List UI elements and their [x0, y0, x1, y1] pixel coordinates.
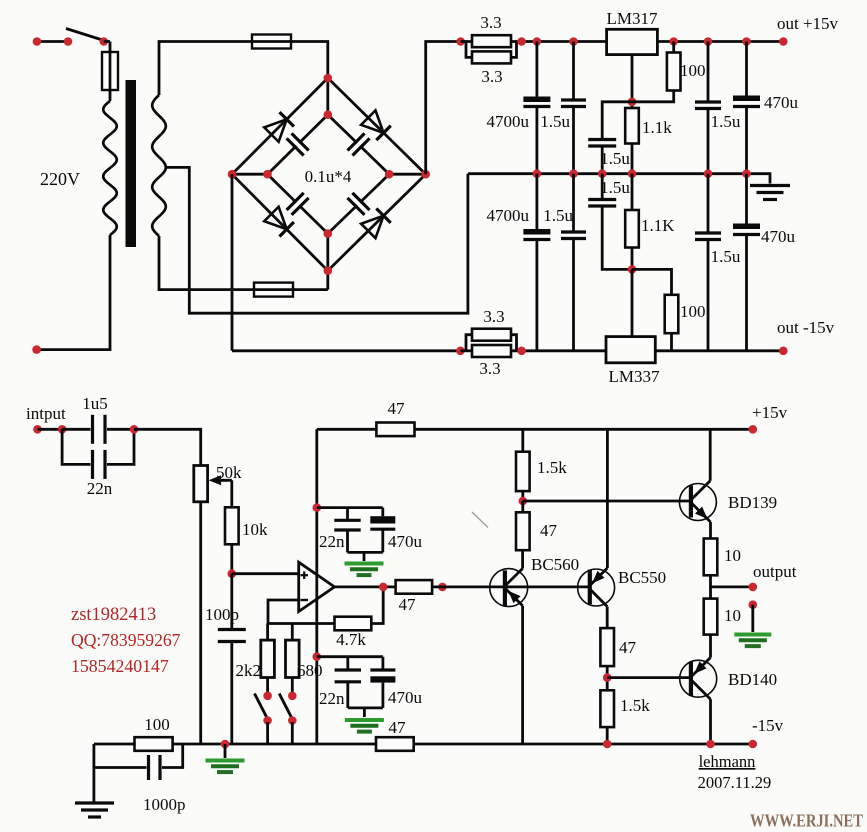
node 680 switch top — [288, 692, 297, 701]
node switch contact — [64, 37, 73, 46]
wire to op-amp +input — [232, 572, 299, 575]
resistor R4 100 (+) — [632, 42, 681, 102]
capacitor C17 470u (bottom decoupling) — [370, 657, 395, 708]
svg-text:10: 10 — [724, 546, 741, 565]
wire decoupling bottom branch — [317, 655, 383, 658]
capacitor bridge snubber bottom-left 0.1u — [287, 193, 309, 215]
wire bottom rail right to -15v — [414, 740, 757, 749]
wire 3.3 pair to LM317 input — [511, 37, 607, 46]
label 1.5u (+out) — [711, 112, 741, 131]
svg-text:470u: 470u — [388, 688, 423, 707]
node 1.5k/47 junction — [519, 497, 528, 506]
wire decoupling bottom join — [348, 708, 383, 717]
label 680 — [297, 661, 323, 680]
wire BD139 emitter down — [709, 522, 712, 539]
label 470u (bottom decoupling) — [388, 688, 423, 707]
svg-text:3.3: 3.3 — [479, 359, 500, 378]
svg-text:BC560: BC560 — [531, 555, 579, 574]
label 3.3 lower — [481, 67, 502, 86]
resistor R7 3.3 (upper) — [466, 329, 517, 351]
transistor Q4 BD140 emitter — [691, 658, 711, 678]
wire junction to BD140 base — [607, 676, 691, 679]
svg-text:3.3: 3.3 — [481, 67, 502, 86]
resistor R5 1.1K — [625, 174, 639, 270]
label 1.5u (adj+) — [600, 149, 630, 168]
svg-text:+15v: +15v — [752, 403, 788, 422]
bridge rectifier outer diamond wires — [232, 78, 426, 271]
wire center tap to ground rail — [165, 167, 468, 313]
svg-text:100: 100 — [680, 61, 706, 80]
capacitor C14 22n (top decoupling) — [334, 508, 360, 553]
transformer T1 core — [126, 80, 137, 247]
wire fuse to primary winding — [109, 90, 112, 101]
capacitor C11 1u5 — [62, 415, 134, 444]
label 47 (top rail) — [388, 399, 406, 418]
svg-text:BC550: BC550 — [618, 568, 666, 587]
capacitor C10 470u (-out) — [733, 174, 760, 351]
resistor R16 47 (BC560 collector) — [516, 501, 530, 550]
wire 4.7k to output node — [371, 587, 383, 624]
wire bottom rail — [173, 740, 376, 749]
resistor R14 680 — [286, 624, 300, 693]
label 220V — [40, 169, 80, 189]
wire BC550 emitter down — [606, 607, 609, 629]
svg-text:680: 680 — [297, 661, 323, 680]
svg-text:BD139: BD139 — [728, 493, 777, 512]
capacitor C9 1.5u (-out) — [695, 174, 721, 351]
node raw+ at 3.3 pair — [456, 37, 465, 46]
label 100 (ground) — [144, 715, 170, 734]
wire decoupling top join — [348, 552, 383, 561]
fuse F3 (secondary lower fuse) — [252, 283, 295, 297]
transistor Q4 BD140 circle — [680, 660, 717, 697]
ground (bottom decoupling) — [345, 720, 384, 732]
svg-text:1000p: 1000p — [143, 795, 186, 814]
resistor R13 2k2 — [261, 624, 275, 693]
transformer T1 primary winding 220V — [103, 101, 116, 235]
label 100 (+) — [680, 61, 706, 80]
svg-text:470u: 470u — [388, 532, 423, 551]
capacitor C3 1.5u (LM317 adj) — [588, 102, 632, 174]
svg-text:10k: 10k — [242, 520, 268, 539]
label zst1982413 — [71, 605, 156, 625]
label 4700u (+) — [487, 112, 530, 131]
label 1.5k (upper) — [537, 458, 567, 477]
label 4.7k — [336, 630, 366, 649]
label 1.5u (adj-) — [600, 178, 630, 197]
label out +15v — [777, 14, 839, 33]
node 47/1.5k junction — [603, 673, 612, 682]
label -15v — [752, 716, 784, 735]
svg-text:470u: 470u — [764, 93, 799, 112]
svg-text:100: 100 — [680, 302, 706, 321]
label 1.5u (-raw) — [543, 206, 573, 225]
resistor R8 3.3 (lower) — [460, 345, 511, 357]
label 50k — [216, 463, 242, 482]
resistor R10 47 (top rail) — [376, 423, 414, 437]
diode D2 (bridge top-right) — [361, 110, 391, 140]
label 3.3 upper (-) — [483, 307, 504, 326]
svg-text:LM317: LM317 — [607, 9, 659, 28]
wire op-amp output — [335, 583, 396, 592]
potentiometer wiper arrow — [209, 475, 232, 485]
switch S1 lever (mains switch) — [66, 29, 104, 41]
svg-text:out +15v: out +15v — [777, 14, 839, 33]
svg-text:zst1982413: zst1982413 — [71, 605, 156, 625]
svg-text:1.5u: 1.5u — [711, 247, 741, 266]
label 47 (BC560) — [540, 521, 558, 540]
transistor Q1 BC560 collector — [505, 550, 523, 586]
svg-text:4700u: 4700u — [487, 206, 530, 225]
label 100 (-) — [680, 302, 706, 321]
svg-text:47: 47 — [399, 595, 417, 614]
wire AC live from terminal to switch — [33, 37, 68, 46]
svg-text:1.5k: 1.5k — [620, 696, 650, 715]
svg-text:22n: 22n — [319, 689, 345, 708]
bridge rectifier inner diamond wires — [268, 115, 390, 234]
wire primary bottom to AC terminal — [32, 235, 110, 354]
capacitor C2 1.5u (+raw) — [561, 37, 586, 174]
potentiometer VR1 50k body — [194, 466, 208, 502]
op-amp - marker — [301, 599, 309, 601]
label QQ:783959267 — [71, 630, 181, 650]
resistor R17 47 (BC550 emitter) — [600, 628, 614, 690]
label 10 (upper) — [724, 546, 741, 565]
label BC560 — [531, 555, 579, 574]
capacitor C6 4700u (-raw) — [523, 174, 550, 351]
op-amp + marker — [301, 571, 309, 579]
regulator U1 LM317 — [607, 9, 659, 55]
svg-text:1u5: 1u5 — [82, 394, 108, 413]
label BD140 — [728, 670, 777, 689]
transistor Q3 BD139 base bar — [689, 485, 693, 517]
label 1u5 — [82, 394, 108, 413]
svg-text:4700u: 4700u — [487, 112, 530, 131]
svg-text:1.5u: 1.5u — [600, 149, 630, 168]
wire fuse F2 to bridge top — [291, 42, 328, 79]
wire -15 rail left segment — [232, 174, 460, 351]
label 4700u (-) — [487, 206, 530, 225]
wire input to volume pot — [134, 429, 201, 465]
label 1.1K — [641, 216, 675, 235]
node 2k2 switch top — [263, 692, 272, 701]
resistor R12 47 (op-amp output) — [396, 580, 433, 594]
transistor Q1 BC560 base bar — [503, 570, 507, 606]
wire top supply rail — [317, 428, 377, 431]
svg-text:1.1K: 1.1K — [641, 216, 675, 235]
transistor Q3 BD139 collector — [691, 481, 710, 500]
svg-text:4.7k: 4.7k — [336, 630, 366, 649]
resistor R21 100 (ground isolate) — [135, 737, 173, 751]
resistor R6 100 (-) — [632, 269, 678, 350]
capacitor C15 470u (top decoupling) — [370, 508, 395, 553]
label out -15v — [777, 318, 835, 337]
fuse F1 (primary fuse) — [102, 50, 118, 92]
svg-text:out -15v: out -15v — [777, 318, 835, 337]
label 47 (op out) — [399, 595, 417, 614]
node 680 switch bottom — [288, 716, 297, 744]
capacitor bridge snubber bottom-right 0.1u — [348, 193, 370, 215]
node input terminal — [33, 425, 62, 434]
switch S3 lever — [279, 694, 291, 718]
resistor R1 3.3 (upper of parallel pair) — [461, 35, 511, 47]
transistor Q3 BD139 circle — [679, 484, 716, 521]
node input joined — [130, 425, 139, 434]
svg-text:50k: 50k — [216, 463, 242, 482]
svg-text:22n: 22n — [319, 532, 345, 551]
ground symbol (PSU) — [750, 172, 790, 199]
resistor R22 47 (bottom rail) — [376, 737, 414, 751]
label 47 (BC550) — [619, 638, 637, 657]
resistor R15 1.5k (upper) — [516, 429, 530, 501]
wire wiper down — [230, 480, 233, 507]
node output ground tap — [749, 600, 758, 609]
wire 10 to BD140 — [709, 635, 712, 658]
svg-text:470u: 470u — [761, 227, 796, 246]
fuse F2 (secondary upper fuse) — [250, 35, 293, 49]
regulator U2 LM337 — [606, 337, 660, 386]
svg-text:1.1k: 1.1k — [642, 118, 672, 137]
wire LM317 adj node — [628, 55, 637, 108]
svg-text:intput: intput — [26, 404, 66, 423]
wire base node to BC550 — [442, 586, 589, 589]
svg-text:10: 10 — [724, 606, 741, 625]
wire BD140 collector to -15 rail — [709, 699, 712, 744]
label 1.1k — [642, 118, 672, 137]
svg-text:2007.11.29: 2007.11.29 — [698, 773, 772, 792]
wire top rail to +15v — [415, 425, 758, 434]
label 1000p — [143, 795, 186, 814]
label 470u (+out) — [764, 93, 799, 112]
svg-text:22n: 22n — [87, 479, 113, 498]
resistor R2 3.3 (lower of parallel pair) — [466, 42, 517, 64]
label 15854240147 — [71, 656, 169, 676]
svg-text:100: 100 — [144, 715, 170, 734]
node driver base node — [432, 583, 447, 592]
label 22n (bottom decoupling) — [319, 689, 345, 708]
label 1.5u (-out) — [711, 247, 741, 266]
ground symbol (signal ground) — [206, 744, 245, 772]
wire fuse F3 to bridge bottom — [293, 271, 328, 290]
label 10 (lower) — [724, 606, 741, 625]
svg-text:47: 47 — [389, 718, 407, 737]
svg-text:1.5u: 1.5u — [711, 112, 741, 131]
label BC550 — [618, 568, 666, 587]
resistor R20 10 (lower) — [704, 599, 718, 635]
svg-text:47: 47 — [619, 638, 637, 657]
label 1.5u (+raw) — [540, 112, 570, 131]
resistor R3 1.1k — [625, 108, 639, 174]
resistor R9 10k — [225, 507, 239, 573]
capacitor C4 1.5u (+out) — [695, 42, 721, 174]
node top decoupling tap — [313, 503, 322, 512]
label 470u (-out) — [761, 227, 796, 246]
node LM337 adj — [628, 265, 637, 274]
label WWW.ERJI.NET watermark — [750, 811, 863, 831]
wire output stub — [711, 583, 758, 592]
wire op-amp supply vertical — [315, 429, 318, 744]
label output — [753, 562, 797, 581]
wire decoupling top branch — [317, 506, 383, 509]
svg-text:100p: 100p — [205, 605, 239, 624]
wire BC550 collector to top rail — [606, 429, 609, 568]
resistor R19 10 (upper) — [704, 539, 718, 576]
wire bridge vertex links — [232, 78, 426, 271]
svg-text:47: 47 — [540, 521, 558, 540]
wire bottom rail left — [94, 743, 135, 746]
node op-amp +input node — [228, 569, 237, 578]
label intput — [26, 404, 66, 423]
label 100p — [205, 605, 239, 624]
svg-text:1.5k: 1.5k — [537, 458, 567, 477]
capacitor C18 1000p — [94, 744, 183, 780]
label lehmann — [699, 752, 756, 771]
svg-text:LM337: LM337 — [609, 367, 661, 386]
node 2k2 switch bottom — [263, 716, 272, 744]
transistor Q2 BC550 circle — [578, 569, 615, 606]
label 2007.11.29 — [698, 773, 772, 792]
svg-text:3.3: 3.3 — [480, 13, 501, 32]
transistor Q3 BD139 emitter — [691, 503, 711, 523]
svg-text:lehmann: lehmann — [699, 752, 756, 771]
capacitor C5 470u (+out) — [733, 42, 760, 174]
label +15v — [752, 403, 788, 422]
capacitor C1 4700u (+raw) — [523, 42, 550, 174]
label 3.3 lower (-) — [479, 359, 500, 378]
wire secondary bottom to fuse F3 — [159, 236, 254, 290]
diode D4 (bridge bottom-right) — [361, 208, 391, 238]
transistor Q1 BC560 circle — [490, 569, 528, 607]
ground (input black) — [75, 803, 114, 817]
label 22n (top decoupling) — [319, 532, 345, 551]
capacitor C13 100p — [218, 574, 246, 744]
diode D3 (bridge bottom-left) — [264, 207, 294, 237]
wire bridge + output up to rectifier rail — [426, 42, 461, 175]
wire to mains ground — [93, 768, 96, 804]
diode D1 (bridge top-left) — [264, 112, 294, 142]
svg-text:BD140: BD140 — [728, 670, 777, 689]
switch S2 lever — [255, 694, 267, 718]
capacitor bridge snubber top-right 0.1u — [348, 133, 370, 155]
transistor Q2 BC550 base bar — [588, 570, 592, 605]
svg-text:1.5u: 1.5u — [540, 112, 570, 131]
capacitor C8 1.5u (LM337 adj) — [588, 174, 632, 270]
capacitor C12 22n (input parallel) — [62, 429, 134, 479]
capacitor bridge snubber top-left 0.1u — [287, 133, 309, 155]
wire LM337 adj pin — [631, 269, 634, 336]
ground (top decoupling) — [345, 564, 384, 576]
svg-text:1.5u: 1.5u — [543, 206, 573, 225]
svg-text:3.3: 3.3 — [483, 307, 504, 326]
transistor Q1 BC560 emitter — [505, 587, 523, 605]
node bridge inner vertices — [263, 110, 393, 238]
svg-text:-15v: -15v — [752, 716, 784, 735]
wire BD139 collector to +15 rail — [709, 429, 712, 481]
node bottom decoupling tap — [313, 652, 322, 661]
capacitor C16 22n (bottom decoupling) — [335, 657, 361, 708]
wire 10 to output node — [709, 575, 712, 598]
label 22n (input) — [87, 479, 113, 498]
node bridge outer vertices — [228, 74, 430, 275]
resistor R11 4.7k feedback — [335, 617, 372, 631]
svg-text:0.1u*4: 0.1u*4 — [305, 167, 352, 186]
node raw- at 3.3 pair — [456, 347, 465, 356]
label 47 (bottom rail) — [389, 718, 407, 737]
svg-text:15854240147: 15854240147 — [71, 656, 169, 676]
wire -15 rail — [511, 347, 788, 356]
svg-text:220V: 220V — [40, 169, 80, 189]
transformer T1 secondary upper winding — [152, 95, 166, 167]
wire ground rail — [468, 169, 770, 178]
transistor Q4 BD140 collector — [691, 680, 711, 700]
wire output ground stem — [751, 605, 754, 632]
node switch output — [100, 37, 111, 52]
capacitor C7 1.5u (-raw) — [561, 174, 586, 351]
wire LM317 output rail +15 — [657, 37, 787, 46]
wire op-amp -input feedback — [268, 600, 335, 624]
transistor Q4 BD140 base bar — [689, 662, 693, 696]
ground (output) — [734, 635, 771, 647]
label 2k2 — [236, 661, 262, 680]
label 1.5k (lower) — [620, 696, 650, 715]
op-amp U3 triangle — [299, 562, 335, 611]
wire pot bottom to ground rail — [199, 502, 202, 744]
label 10k — [242, 520, 268, 539]
transformer T1 secondary lower winding — [152, 167, 166, 236]
svg-text:1.5u: 1.5u — [600, 178, 630, 197]
wire BC560 emitter to bottom rail — [521, 606, 524, 744]
label BD139 — [728, 493, 777, 512]
svg-text:output: output — [753, 562, 797, 581]
wire secondary top to fuse F2 — [159, 42, 252, 96]
transistor Q2 BC550 emitter — [590, 589, 607, 607]
svg-text:WWW.ERJI.NET: WWW.ERJI.NET — [750, 811, 863, 831]
svg-text:QQ:783959267: QQ:783959267 — [71, 630, 181, 650]
label 470u (top decoupling) — [388, 532, 423, 551]
transistor Q2 BC550 collector — [589, 568, 608, 587]
label 3.3 upper — [480, 13, 501, 32]
node input split — [58, 425, 67, 434]
wire junction to BD139 base — [523, 500, 691, 503]
svg-text:2k2: 2k2 — [236, 661, 262, 680]
resistor R18 1.5k (lower) — [600, 690, 614, 744]
label 0.1u*4 — [305, 167, 352, 186]
svg-text:47: 47 — [388, 399, 406, 418]
